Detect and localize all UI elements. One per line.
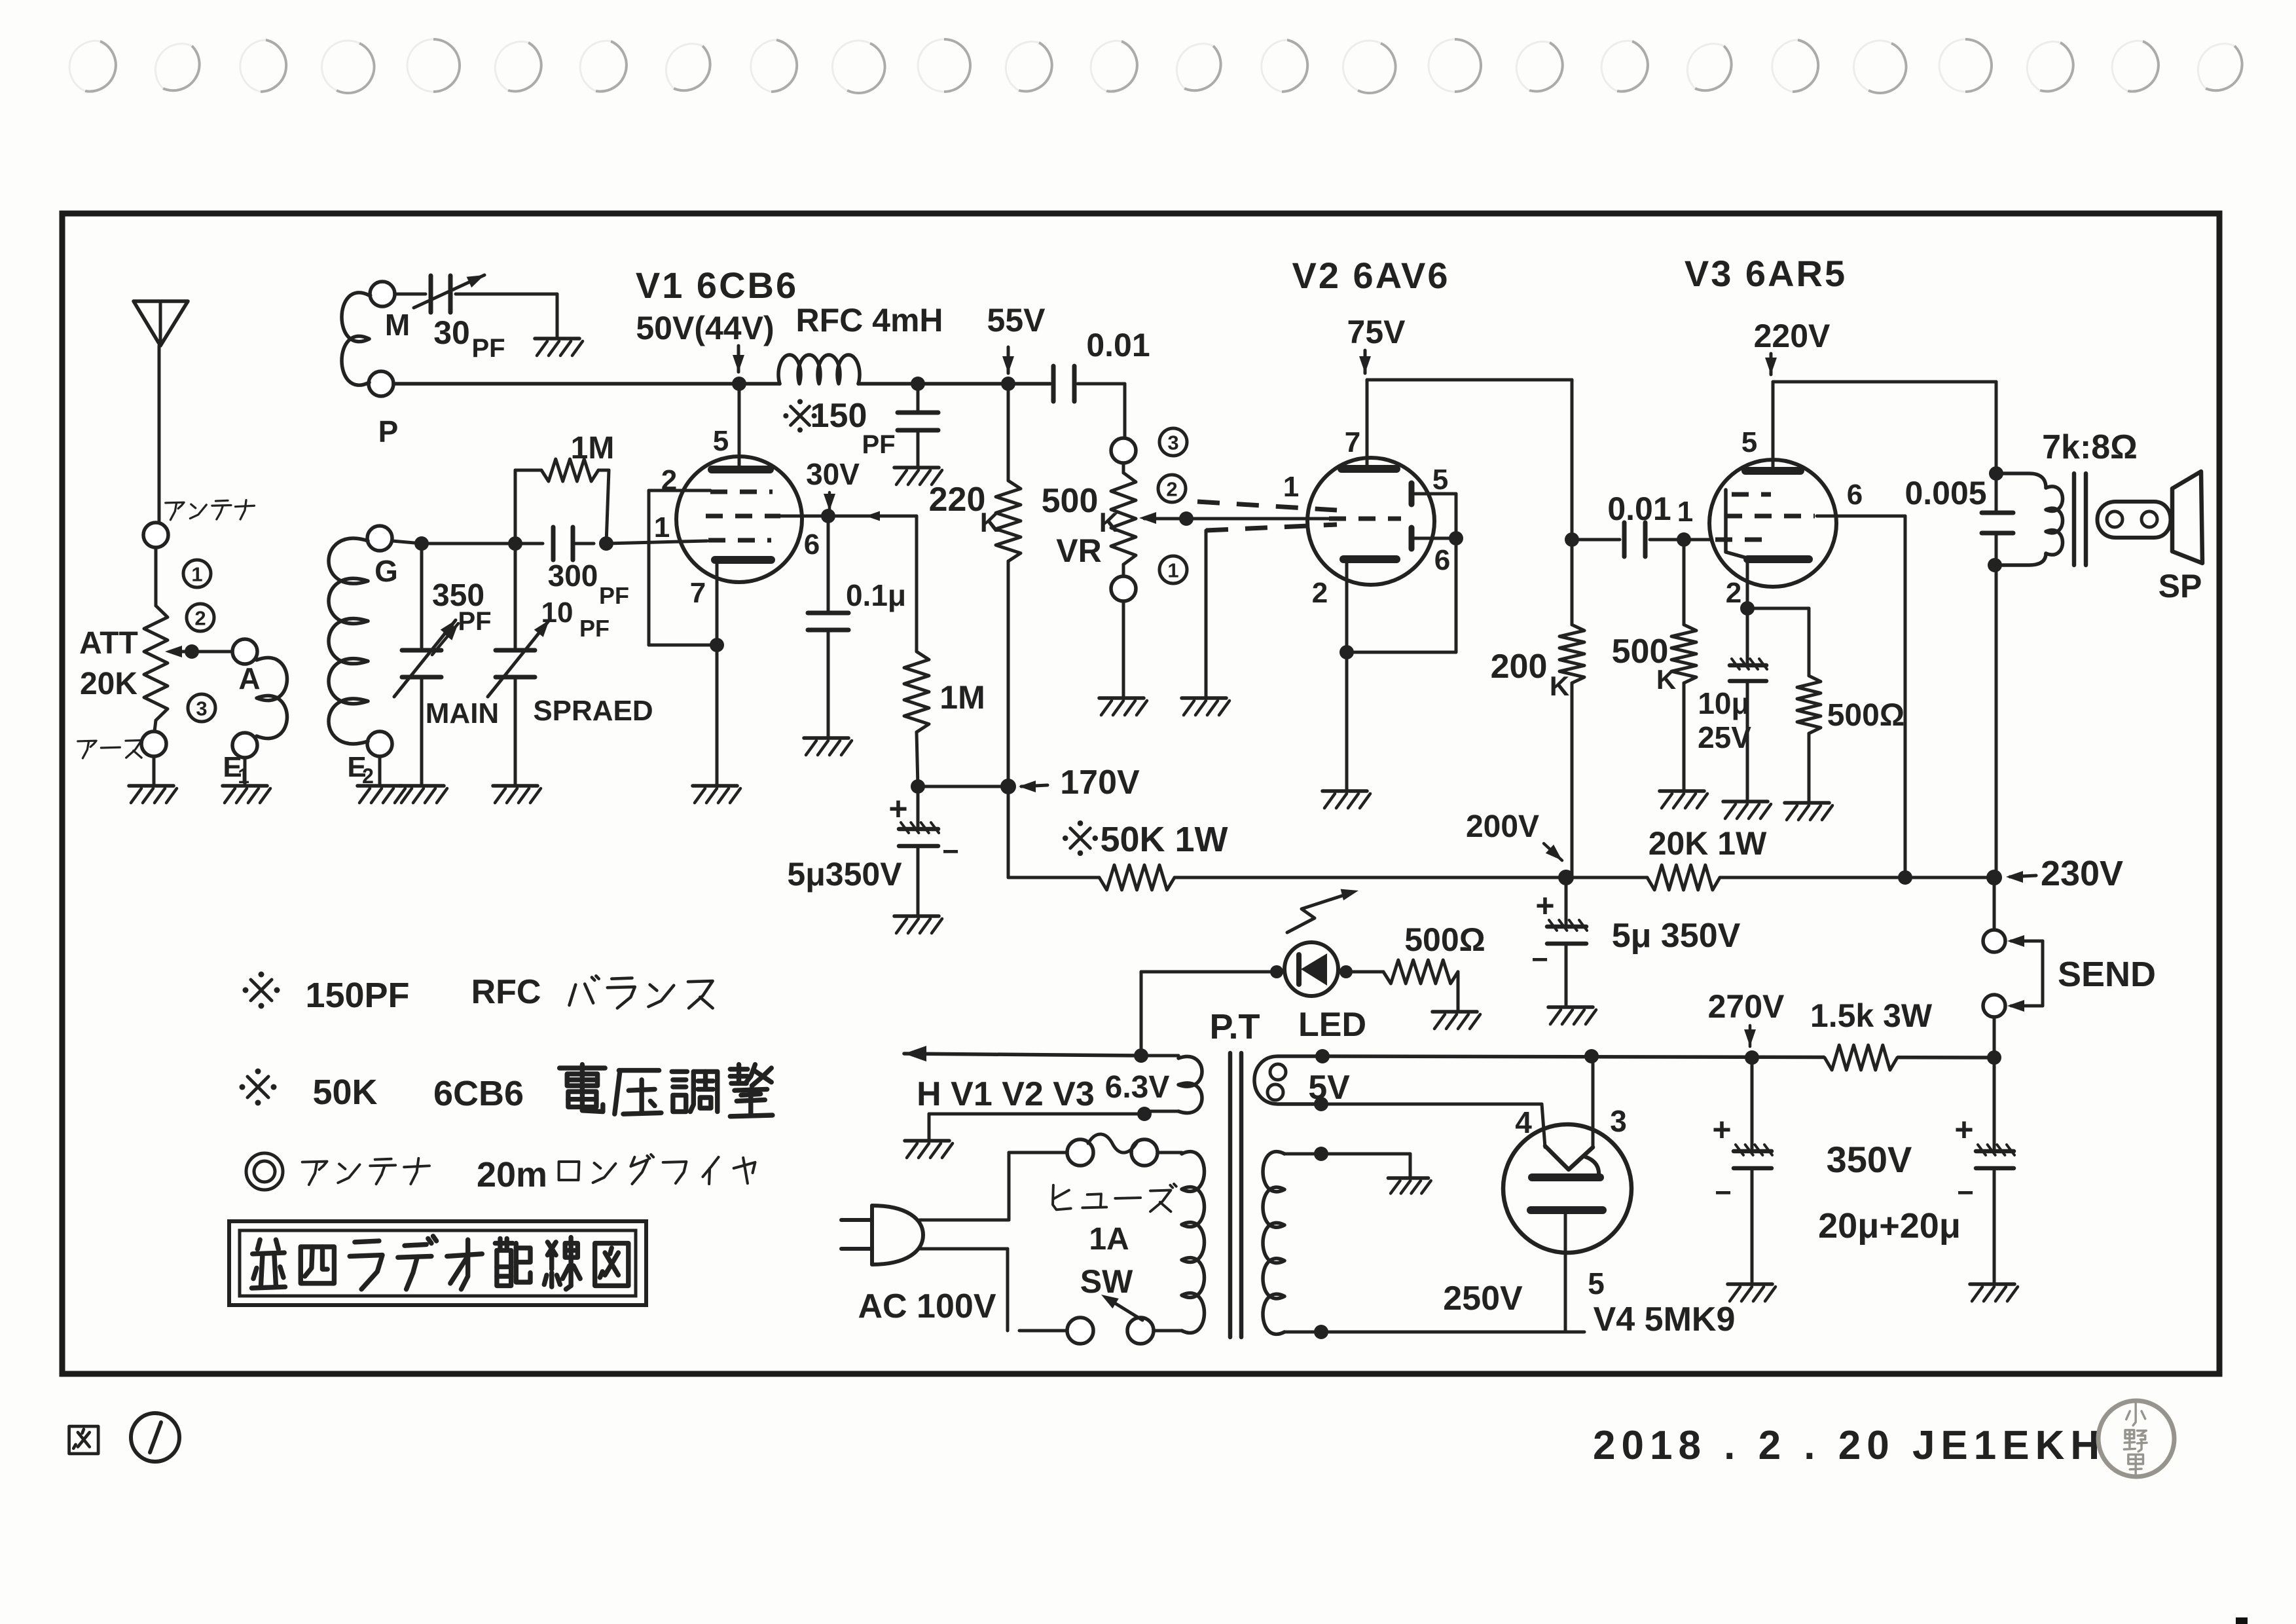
svg-text:SPRAED: SPRAED bbox=[533, 695, 653, 727]
svg-text:2: 2 bbox=[661, 464, 677, 496]
svg-text:6: 6 bbox=[1847, 479, 1863, 511]
svg-text:5: 5 bbox=[713, 425, 729, 457]
svg-text:1A: 1A bbox=[1089, 1222, 1129, 1257]
svg-text:7k:8Ω: 7k:8Ω bbox=[2042, 428, 2138, 466]
svg-text:6CB6: 6CB6 bbox=[433, 1074, 524, 1113]
svg-text:P.T: P.T bbox=[1209, 1007, 1260, 1046]
svg-text:7: 7 bbox=[1345, 426, 1360, 458]
svg-text:RFC: RFC bbox=[471, 973, 541, 1011]
svg-text:K: K bbox=[1099, 507, 1119, 538]
svg-text:55V: 55V bbox=[987, 302, 1046, 339]
svg-text:PF: PF bbox=[458, 607, 491, 636]
svg-text:20μ+20μ: 20μ+20μ bbox=[1818, 1206, 1961, 1246]
svg-text:5: 5 bbox=[1588, 1266, 1605, 1301]
svg-text:M: M bbox=[385, 308, 410, 342]
svg-text:200: 200 bbox=[1491, 648, 1548, 686]
svg-text:ATT: ATT bbox=[79, 626, 138, 661]
svg-text:MAIN: MAIN bbox=[426, 697, 499, 729]
svg-text:2: 2 bbox=[1726, 577, 1741, 609]
svg-text:2018 . 2 . 20 JE1EKH: 2018 . 2 . 20 JE1EKH bbox=[1593, 1423, 2105, 1468]
svg-text:−: − bbox=[942, 836, 959, 868]
svg-text:300: 300 bbox=[548, 559, 598, 593]
svg-text:200V: 200V bbox=[1466, 809, 1539, 844]
svg-text:PF: PF bbox=[862, 430, 895, 459]
svg-text:0.01: 0.01 bbox=[1607, 490, 1671, 527]
svg-text:SEND: SEND bbox=[2058, 955, 2156, 994]
svg-text:1: 1 bbox=[1167, 559, 1178, 582]
svg-text:6: 6 bbox=[1434, 544, 1450, 576]
svg-text:50K 1W: 50K 1W bbox=[1100, 820, 1228, 859]
svg-text:20K: 20K bbox=[80, 667, 137, 701]
svg-text:5μ350V: 5μ350V bbox=[787, 856, 902, 893]
svg-text:V1 6CB6: V1 6CB6 bbox=[636, 265, 798, 306]
svg-text:+: + bbox=[1954, 1111, 1973, 1148]
svg-text:500Ω: 500Ω bbox=[1404, 921, 1485, 958]
svg-text:500Ω: 500Ω bbox=[1827, 698, 1905, 733]
svg-text:1: 1 bbox=[238, 764, 249, 788]
svg-text:−: − bbox=[1531, 944, 1548, 976]
svg-text:PF: PF bbox=[471, 334, 505, 363]
svg-text:H V1 V2 V3: H V1 V2 V3 bbox=[917, 1075, 1095, 1113]
svg-text:−: − bbox=[1957, 1177, 1974, 1209]
svg-text:30V: 30V bbox=[806, 457, 860, 491]
svg-text:230V: 230V bbox=[2041, 854, 2123, 893]
svg-text:A: A bbox=[238, 661, 260, 695]
svg-text:−: − bbox=[1715, 1177, 1732, 1209]
svg-text:350V: 350V bbox=[1827, 1139, 1912, 1180]
svg-text:3: 3 bbox=[1610, 1104, 1627, 1138]
svg-text:K: K bbox=[1656, 664, 1676, 695]
svg-text:250V: 250V bbox=[1443, 1280, 1523, 1318]
svg-text:6.3V: 6.3V bbox=[1105, 1070, 1170, 1105]
svg-text:+: + bbox=[1535, 887, 1554, 924]
svg-text:75V: 75V bbox=[1347, 314, 1406, 350]
svg-text:0.01: 0.01 bbox=[1086, 327, 1150, 363]
svg-text:150PF: 150PF bbox=[305, 976, 409, 1015]
svg-text:3: 3 bbox=[1167, 432, 1178, 454]
svg-text:270V: 270V bbox=[1708, 988, 1785, 1025]
svg-text:50K: 50K bbox=[312, 1073, 377, 1112]
svg-text:7: 7 bbox=[690, 577, 706, 609]
svg-text:4: 4 bbox=[1515, 1105, 1532, 1139]
svg-text:V4 5MK9: V4 5MK9 bbox=[1594, 1301, 1736, 1338]
svg-text:2: 2 bbox=[194, 607, 206, 630]
svg-text:6: 6 bbox=[804, 528, 820, 561]
svg-text:2: 2 bbox=[1166, 478, 1177, 501]
svg-text:30: 30 bbox=[433, 314, 470, 351]
svg-text:170V: 170V bbox=[1060, 764, 1140, 802]
svg-text:1: 1 bbox=[191, 563, 202, 586]
svg-text:K: K bbox=[980, 507, 1000, 538]
svg-text:V3 6AR5: V3 6AR5 bbox=[1685, 253, 1847, 294]
svg-text:1M: 1M bbox=[939, 679, 985, 716]
svg-text:10: 10 bbox=[541, 597, 574, 629]
svg-text:SP: SP bbox=[2159, 568, 2202, 604]
svg-text:1: 1 bbox=[1677, 496, 1693, 528]
svg-text:20K 1W: 20K 1W bbox=[1649, 825, 1767, 862]
svg-text:500: 500 bbox=[1042, 482, 1099, 520]
svg-text:VR: VR bbox=[1056, 532, 1101, 569]
svg-text:5V: 5V bbox=[1308, 1069, 1350, 1107]
svg-text:5: 5 bbox=[1741, 426, 1757, 458]
svg-text:LED: LED bbox=[1298, 1006, 1366, 1044]
svg-text:50V(44V): 50V(44V) bbox=[636, 310, 774, 346]
svg-text:0.1μ: 0.1μ bbox=[846, 578, 906, 612]
svg-text:10μ: 10μ bbox=[1698, 686, 1749, 720]
svg-text:K: K bbox=[1550, 671, 1569, 701]
svg-text:PF: PF bbox=[599, 582, 629, 609]
svg-text:PF: PF bbox=[579, 615, 610, 642]
svg-text:3: 3 bbox=[196, 697, 207, 720]
svg-text:2: 2 bbox=[1312, 577, 1328, 609]
svg-text:SW: SW bbox=[1080, 1263, 1133, 1300]
svg-text:+: + bbox=[1712, 1111, 1731, 1148]
svg-text:1M: 1M bbox=[571, 431, 615, 466]
svg-text:220V: 220V bbox=[1754, 318, 1831, 354]
svg-text:AC 100V: AC 100V bbox=[858, 1287, 996, 1325]
svg-text:220: 220 bbox=[929, 481, 986, 519]
svg-text:5μ 350V: 5μ 350V bbox=[1612, 917, 1741, 955]
svg-text:1: 1 bbox=[654, 511, 670, 544]
svg-text:5: 5 bbox=[1432, 464, 1448, 496]
svg-text:P: P bbox=[378, 415, 399, 449]
svg-text:G: G bbox=[374, 554, 398, 588]
svg-text:0.005: 0.005 bbox=[1904, 475, 1986, 511]
svg-text:1: 1 bbox=[1283, 471, 1299, 503]
svg-text:V2 6AV6: V2 6AV6 bbox=[1292, 255, 1450, 296]
svg-text:+: + bbox=[888, 790, 907, 827]
svg-text:150: 150 bbox=[811, 397, 867, 435]
svg-text:1.5k 3W: 1.5k 3W bbox=[1810, 997, 1933, 1034]
svg-text:20m: 20m bbox=[477, 1155, 547, 1194]
svg-text:25V: 25V bbox=[1698, 720, 1751, 754]
svg-text:RFC 4mH: RFC 4mH bbox=[795, 302, 943, 339]
